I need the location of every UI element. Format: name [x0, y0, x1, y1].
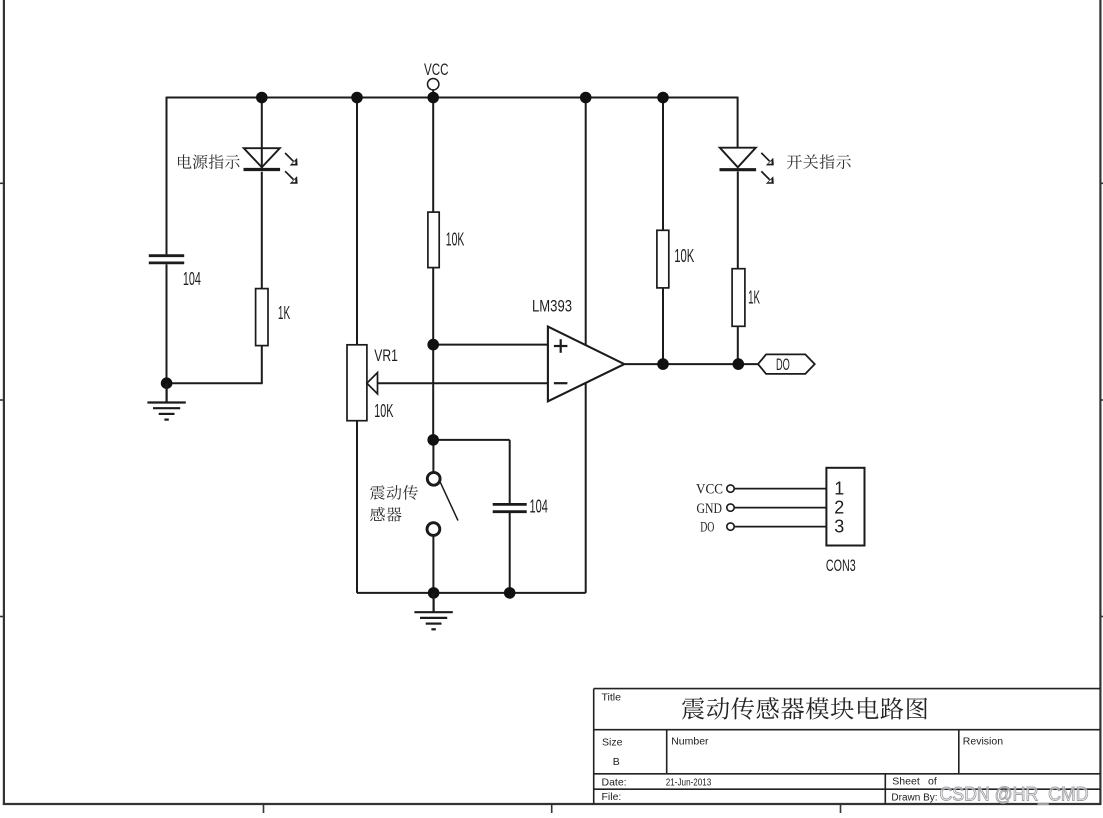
svg-text:Sheet: Sheet — [892, 775, 920, 787]
svg-text:DO: DO — [776, 356, 790, 374]
svg-text:VCC: VCC — [696, 481, 723, 497]
svg-text:of: of — [928, 775, 937, 787]
svg-text:B: B — [613, 756, 620, 768]
svg-text:1: 1 — [834, 479, 844, 499]
svg-text:10K: 10K — [374, 401, 393, 421]
svg-text:10K: 10K — [446, 229, 465, 249]
svg-text:DO: DO — [700, 520, 714, 536]
svg-text:VCC: VCC — [424, 60, 449, 79]
svg-text:LM393: LM393 — [532, 297, 572, 316]
svg-text:2: 2 — [834, 498, 844, 518]
svg-text:Revision: Revision — [963, 735, 1003, 747]
svg-text:1K: 1K — [748, 288, 760, 308]
svg-text:VR1: VR1 — [374, 346, 398, 365]
svg-text:CSDN @HR_CMD: CSDN @HR_CMD — [940, 784, 1089, 806]
svg-text:Number: Number — [671, 735, 709, 747]
svg-text:104: 104 — [183, 269, 201, 289]
svg-text:21-Jun-2013: 21-Jun-2013 — [666, 776, 712, 788]
svg-text:Size: Size — [602, 736, 623, 748]
svg-text:3: 3 — [834, 517, 844, 537]
svg-text:10K: 10K — [674, 246, 694, 266]
svg-text:CON3: CON3 — [826, 556, 856, 575]
svg-text:Date:: Date: — [602, 776, 627, 788]
svg-text:1K: 1K — [278, 303, 290, 323]
svg-text:104: 104 — [530, 497, 548, 517]
svg-text:Title: Title — [602, 691, 622, 703]
svg-text:GND: GND — [697, 501, 723, 517]
svg-text:Drawn By:: Drawn By: — [891, 793, 937, 804]
svg-text:File:: File: — [602, 791, 622, 803]
